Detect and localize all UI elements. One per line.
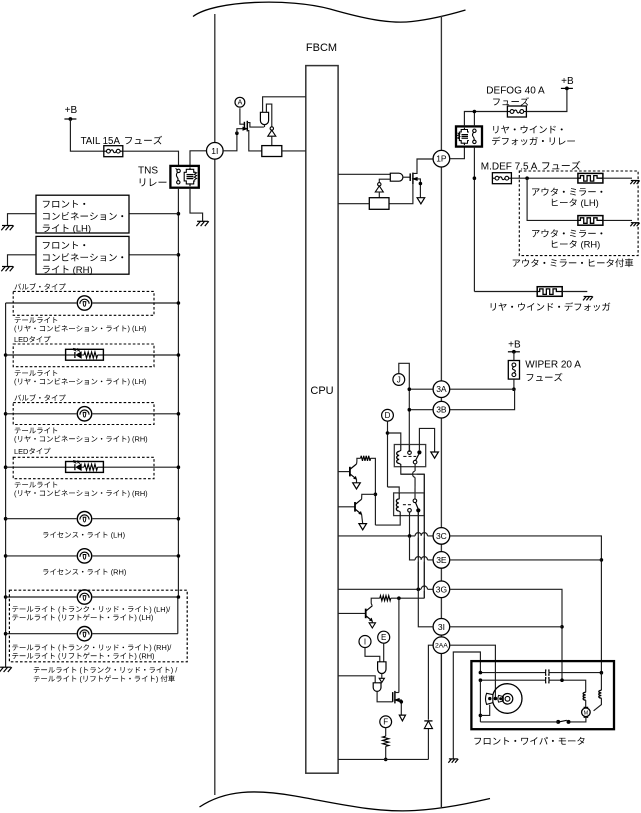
node dot 3C junction xyxy=(408,534,412,538)
label tail RH 1 xyxy=(15,427,58,433)
wire Q2 collector to node xyxy=(362,494,376,499)
wire rail1 to armature coil B xyxy=(600,673,602,691)
diode D2 (zener ref) xyxy=(268,127,276,146)
box dashed LED-type RH xyxy=(13,457,154,478)
node dot MOSFET Q4 source xyxy=(235,131,239,135)
label trailer LH 2 xyxy=(12,613,153,622)
node dot R5 ground xyxy=(384,758,388,762)
svg-text:A: A xyxy=(238,100,243,107)
resistor R2 (defog driver) xyxy=(369,198,389,210)
node dot lamp row right xyxy=(177,353,181,357)
svg-text:2AA: 2AA xyxy=(435,643,448,650)
node 3I xyxy=(433,619,450,636)
svg-text:FBCM: FBCM xyxy=(306,42,337,54)
wire 3C to CPU xyxy=(338,535,433,537)
svg-text:) /: ) / xyxy=(171,666,179,675)
node dot Q3 node xyxy=(397,596,401,600)
node 3B xyxy=(433,401,450,418)
wire 3A to fuse xyxy=(450,388,514,390)
svg-text:) (LH): ) (LH) xyxy=(128,377,147,386)
arrow output (Q2 emitter) xyxy=(359,514,367,529)
wire DEFOG fuse to +B xyxy=(526,88,567,111)
svg-text:CPU: CPU xyxy=(310,385,333,397)
label front combination light RH xyxy=(43,241,123,276)
box dashed LED-type LH xyxy=(13,344,154,367)
svg-text:DEFOG 40 A: DEFOG 40 A xyxy=(486,85,545,96)
relay TNS xyxy=(170,166,198,188)
transistor Q3 xyxy=(366,606,373,621)
transistor Q1 xyxy=(350,464,357,479)
wire R1 to CPU xyxy=(282,150,306,152)
arrow output (K1) xyxy=(431,452,439,458)
wire CPU to U3 gate xyxy=(338,173,390,175)
wire K1 coil to Q3 node xyxy=(401,467,425,599)
gate U4 AND (wiper) xyxy=(378,662,386,674)
ground (wiper motor) xyxy=(448,759,458,763)
power +B (tail feed) xyxy=(64,105,77,121)
svg-text:LED: LED xyxy=(14,447,28,456)
node 3C xyxy=(433,528,450,545)
relay K1 (wiper hi/lo) xyxy=(394,445,425,467)
wire CPU ground rail xyxy=(338,758,428,760)
label license light RH xyxy=(43,568,126,577)
wire TNS coil to ground xyxy=(190,188,203,222)
svg-text:) (RH): ) (RH) xyxy=(128,489,148,498)
arrow output (Q5 source) xyxy=(417,198,425,204)
pin F circle xyxy=(380,716,392,728)
pin A circle xyxy=(235,97,245,107)
wire front combo RH ground xyxy=(8,255,37,267)
fuse WIPER 20A xyxy=(508,352,519,379)
node 2AA xyxy=(433,637,450,654)
label trailer RH 2 xyxy=(12,652,154,661)
resistor R5 xyxy=(383,736,389,746)
label trailer LH 1 xyxy=(12,605,171,614)
wire R5 to ground wire xyxy=(385,746,387,759)
node dot Q2 collector node xyxy=(374,493,378,497)
label mirror heater note xyxy=(513,259,634,268)
label bulb type RH xyxy=(14,394,65,401)
wire K1 wiper to K2 common xyxy=(414,464,416,499)
hop K1 wiper over coil wire xyxy=(413,471,417,477)
svg-text:3I: 3I xyxy=(438,622,445,632)
svg-text:3A: 3A xyxy=(436,384,447,394)
wire overlay K1-coil vertical xyxy=(423,474,425,598)
wire+LED tail RH (LED type) xyxy=(6,461,179,473)
label tail LED LH 2 xyxy=(14,377,146,386)
wire 2AA bus bottom xyxy=(440,654,442,808)
label trailer RH 1 xyxy=(12,643,172,652)
node dot M.DEF junction xyxy=(473,176,477,180)
svg-text:(RH): (RH) xyxy=(581,239,601,250)
svg-text:) (LH): ) (LH) xyxy=(128,324,147,333)
resistor R3 xyxy=(361,456,371,461)
wire 3I to relay node xyxy=(418,589,433,627)
node dot lamp row right xyxy=(177,301,181,305)
fuse M.DEF 7.5A xyxy=(492,173,511,184)
box dashed bulb-type RH xyxy=(13,403,154,425)
heater element outer mirror RH xyxy=(578,216,603,226)
label trailer note 1 xyxy=(34,666,179,675)
svg-text:I: I xyxy=(364,637,366,646)
node dot lamp row right xyxy=(177,517,181,521)
node dot row3 left xyxy=(4,412,8,416)
label mirror heater RH 2 xyxy=(552,239,600,250)
motor armature (front wiper) xyxy=(486,684,522,714)
label tail LH 2 xyxy=(14,324,146,333)
wire rear defogger to ground xyxy=(562,291,587,293)
label trailer note 2 xyxy=(34,674,175,683)
wire motor common left xyxy=(479,680,490,722)
box dashed bulb-type LH xyxy=(13,291,154,315)
wire trailer RH up to bus xyxy=(177,597,179,634)
node dot lamp row right xyxy=(177,595,181,599)
wire M to park switch xyxy=(570,717,586,722)
arrow output (M6 source) xyxy=(399,715,405,721)
transistor Q2 xyxy=(355,499,362,514)
wire +B to TAIL fuse xyxy=(70,119,103,151)
label DEFOG fuse 1 xyxy=(486,85,545,96)
hop 3E over NO wire xyxy=(415,557,421,562)
power +B (wiper) xyxy=(508,339,521,353)
wire+bulb trailer tail LH xyxy=(6,589,179,605)
wire 3E to join xyxy=(450,559,602,561)
wire 3E branch xyxy=(410,536,434,560)
node dot lamp row right xyxy=(177,554,181,558)
node dot row4 left xyxy=(4,465,8,469)
wire 2AA to motor brush xyxy=(450,645,496,698)
svg-text:F: F xyxy=(383,718,388,727)
svg-text:): ) xyxy=(156,674,158,683)
hop 3G over coil wire xyxy=(421,586,427,591)
ground (lamp bus bottom) xyxy=(0,667,12,672)
svg-text:3G: 3G xyxy=(436,584,447,594)
svg-text:+B: +B xyxy=(65,105,78,116)
wire WIPER fuse to 3A xyxy=(513,379,515,389)
diode D4 xyxy=(424,721,432,729)
wire K2 NC down to 3C node xyxy=(409,512,411,536)
node 3G xyxy=(433,581,450,598)
wire J to wiper feed bus xyxy=(399,363,410,452)
heater element rear window defogger xyxy=(537,287,562,297)
wire front combo LH ground xyxy=(8,214,37,226)
transistor Q5 (defog relay MOSFET) xyxy=(389,159,433,204)
wire U3 out to Q5 gate xyxy=(403,176,410,178)
wire overlay K1-coil horizontal xyxy=(401,473,425,475)
wire CPU to U5 xyxy=(338,676,375,683)
node dot rail2 left xyxy=(479,678,483,682)
wire K1 NC to output arrow xyxy=(419,428,434,452)
label bulb type LH xyxy=(14,283,65,290)
label TAIL 15A fuse xyxy=(81,136,162,147)
wire K2 NO down to 3G node xyxy=(417,513,419,590)
svg-text:1I: 1I xyxy=(211,146,218,156)
wire M.DEF fuse to mirror heaters xyxy=(511,177,578,179)
capacitor C2 xyxy=(546,677,549,683)
node dot brush feed xyxy=(494,697,498,701)
node dot rail1 left xyxy=(479,671,483,675)
box dashed outer mirror heaters xyxy=(519,171,638,256)
wire defog switch to M.DEF wire xyxy=(473,147,475,292)
node 3E xyxy=(433,552,450,569)
svg-text:E: E xyxy=(381,633,386,642)
relay rear window defogger xyxy=(456,126,482,146)
wire: left harness bus xyxy=(214,14,216,795)
resistor R1 (tail driver) xyxy=(262,146,282,157)
svg-text:+B: +B xyxy=(508,339,521,350)
pin I circle xyxy=(359,636,371,648)
wire Q3 collector resistor xyxy=(371,598,380,606)
node 1I xyxy=(207,143,224,160)
label defog relay 2 xyxy=(492,137,575,146)
wire 1I to MOSFET source xyxy=(223,133,237,151)
pin D circle xyxy=(382,409,394,421)
wire 3B to fuse xyxy=(450,389,515,410)
label tail LED RH 2 xyxy=(14,489,148,498)
node dot rail1 right xyxy=(600,671,604,675)
pin J circle xyxy=(393,374,405,386)
svg-text:LED: LED xyxy=(14,335,28,344)
svg-text:J: J xyxy=(397,375,401,384)
wire 3B to J bus xyxy=(409,409,433,411)
svg-text:D: D xyxy=(385,411,391,420)
node dot lamp row right xyxy=(177,465,181,469)
node dot 3I-3G join xyxy=(560,625,564,629)
label tail LED RH 1 xyxy=(15,482,58,488)
wire to mirror heater RH xyxy=(527,178,578,220)
label WIPER fuse 2 xyxy=(527,373,563,381)
wire+bulb tail RH (bulb type) xyxy=(6,406,179,422)
svg-text:TNS: TNS xyxy=(138,166,158,177)
relay K2 (wiper on/off) xyxy=(394,493,425,516)
CPU block U1 xyxy=(306,66,338,774)
wire heater LH to ground xyxy=(603,177,632,179)
wire+bulb license RH xyxy=(6,548,179,564)
node dot defog fuse junction xyxy=(473,110,477,114)
label tail RH 2 xyxy=(14,435,148,444)
svg-text:(LH): (LH) xyxy=(73,224,91,235)
wire motor common to ground xyxy=(453,652,480,759)
label defog relay 1 xyxy=(493,125,562,133)
arrow output (Q3 emitter) xyxy=(369,621,375,628)
label rear window defogger xyxy=(491,302,611,311)
wire 2AA branch diode xyxy=(428,645,433,759)
wire K1 common from wiper feed xyxy=(409,445,411,451)
inductor coil B xyxy=(594,690,602,711)
wire K2 coil to Q2 node xyxy=(375,516,400,526)
ground (mirror heater RH) xyxy=(630,223,639,227)
label LED type RH xyxy=(14,447,50,456)
node dot rail2 feed xyxy=(560,678,564,682)
label TNS relay xyxy=(138,166,166,187)
resistor R4 xyxy=(380,596,391,601)
svg-text:3B: 3B xyxy=(436,405,447,415)
wire 3G to motor xyxy=(450,589,562,680)
node 1P xyxy=(433,150,450,167)
node dot mirror heater branch xyxy=(525,176,529,180)
node 1I wire to TNS coil xyxy=(190,151,206,166)
node dot front combo RH xyxy=(177,253,181,257)
wire: right harness bus xyxy=(440,16,442,807)
svg-text:WIPER 20 A: WIPER 20 A xyxy=(525,360,581,371)
node dot lamp row right xyxy=(177,412,181,416)
svg-text:(LH): (LH) xyxy=(581,197,599,208)
svg-text:(RH): (RH) xyxy=(111,568,127,577)
wire: harness tear curve top xyxy=(193,2,466,22)
wire defog switch to rear defogger xyxy=(474,291,537,293)
label DEFOG fuse 2 xyxy=(493,97,529,105)
svg-text:) (RH): ) (RH) xyxy=(128,435,148,444)
wire I to U4 xyxy=(365,648,380,662)
pin E circle xyxy=(378,631,390,643)
label LED type LH xyxy=(14,335,50,344)
hop 3E over coil wire xyxy=(421,557,427,562)
wire R2 to CPU xyxy=(338,203,369,205)
diode D3 (zener ref) xyxy=(375,179,390,198)
wire CPU to Q2 base xyxy=(338,506,355,508)
box dashed trailer tail lights xyxy=(9,590,187,662)
node dot row8 left xyxy=(4,632,8,636)
svg-text:) (RH): ) (RH) xyxy=(134,652,154,661)
wire front combo RH to relay xyxy=(129,254,178,256)
wire park switch to common xyxy=(480,721,558,723)
box front combination light LH xyxy=(36,195,129,233)
wire+bulb trailer tail RH xyxy=(6,626,178,642)
hop 3C over NO wire xyxy=(415,533,421,538)
FBCM module label xyxy=(306,42,337,54)
wire: harness tear curve bottom xyxy=(200,792,491,811)
box front combination light RH xyxy=(36,236,129,274)
transistor M6 (wiper MOSFET) xyxy=(393,691,403,715)
label M.DEF fuse xyxy=(481,161,581,172)
wire Q3 node down to M6 drain xyxy=(398,598,400,692)
label tail LH 1 xyxy=(15,317,58,323)
label mirror heater LH 2 xyxy=(552,197,599,208)
CPU label xyxy=(310,385,333,397)
box front wiper motor xyxy=(471,661,614,729)
wire A to MOSFET gate xyxy=(240,108,245,124)
wire motor rail2 (3G/3I) xyxy=(480,680,585,692)
label WIPER fuse 1 xyxy=(525,360,581,371)
wire E to U4 xyxy=(383,643,385,662)
ground (rear defogger) xyxy=(583,297,593,301)
node dot front combo LH xyxy=(177,212,181,216)
node dot J-3A xyxy=(408,387,412,391)
wire U2 input from CPU xyxy=(263,97,306,113)
wire heater RH to ground xyxy=(603,219,632,221)
wire+bulb tail LH (bulb type) xyxy=(6,295,179,311)
wire left lamp bus xyxy=(5,303,7,667)
svg-text:(RH): (RH) xyxy=(73,265,93,276)
wire R4 to node xyxy=(391,597,425,599)
wire U4 out to U5 xyxy=(379,674,384,683)
wire defog relay tops to fuse xyxy=(464,112,507,127)
ground (TNS relay coil) xyxy=(196,221,208,226)
fuse TAIL 15A xyxy=(104,146,123,157)
label mirror heater LH 1 xyxy=(532,188,602,196)
node dot row5 left xyxy=(4,517,8,521)
switch park (wiper) xyxy=(556,720,570,724)
gate U3 AND (defog) xyxy=(390,173,403,181)
wire U5 out to M6 gate xyxy=(377,691,393,701)
fuse DEFOG 40A xyxy=(507,106,526,117)
wire R3 to node xyxy=(371,458,376,525)
hop 3C over coil wire xyxy=(421,533,427,538)
wire CPU to Q3 base xyxy=(338,612,366,614)
node dot 3G junction xyxy=(417,588,421,592)
wire 3C to wiper motor xyxy=(450,536,602,673)
label tail LED LH 1 xyxy=(15,370,58,376)
gate U5 AND (wiper) xyxy=(373,683,382,692)
svg-text:3C: 3C xyxy=(436,531,447,541)
wire front combo LH to relay xyxy=(129,213,178,215)
ground (front combo LH) xyxy=(1,226,13,231)
wire 1P to defog relay coil xyxy=(450,147,465,159)
svg-text:+B: +B xyxy=(561,76,574,87)
svg-text:1P: 1P xyxy=(436,154,447,164)
node dot wiper feed xyxy=(512,387,516,391)
svg-text:M: M xyxy=(584,711,589,717)
node dot row2 left xyxy=(4,353,8,357)
svg-text:(LH): (LH) xyxy=(111,531,125,540)
label front wiper motor xyxy=(474,737,584,745)
wire U2 input from zener D2 xyxy=(266,104,271,127)
capacitor C1 xyxy=(546,669,549,675)
wire 3I right to motor xyxy=(450,626,562,628)
inductor coil A xyxy=(583,692,586,708)
arrow output (Q1 emitter) xyxy=(353,479,361,489)
wire F to resistor xyxy=(385,728,387,736)
ground (mirror heater LH) xyxy=(630,181,639,185)
wire fuse to TNS relay switch xyxy=(123,151,179,166)
node dot row6 left xyxy=(4,554,8,558)
wire CPU to Q1 base xyxy=(338,471,350,473)
label front combination light LH xyxy=(43,200,123,235)
node dot J-3B xyxy=(408,408,412,412)
gate U2 AND (tail) xyxy=(260,112,268,127)
label mirror heater RH 1 xyxy=(532,229,602,237)
svg-text:) (LH): ) (LH) xyxy=(134,613,153,622)
wire+bulb license LH xyxy=(6,511,179,527)
heater element outer mirror LH xyxy=(578,173,603,183)
wire TNS switch output down left bus xyxy=(177,188,179,597)
ground (front combo RH) xyxy=(1,267,13,272)
node 3A xyxy=(433,381,450,398)
wire motor rail1 (3C/3E) xyxy=(480,672,601,674)
node dot row7 left xyxy=(4,595,8,599)
wire overlay K2-NO vertical xyxy=(417,513,419,590)
svg-text:3E: 3E xyxy=(436,555,447,565)
power +B (defogger) xyxy=(561,76,574,90)
wire Q1 collector resistor xyxy=(357,458,361,464)
node dot 3E-3C join xyxy=(600,558,604,562)
wire D to relay coils xyxy=(386,421,401,493)
wire 3A to J bus xyxy=(409,388,433,390)
wire 3G to CPU xyxy=(338,588,433,590)
label license light LH xyxy=(43,531,125,540)
motor M (wiper) xyxy=(582,707,591,717)
wire+LED tail LH (LED type) xyxy=(6,348,179,360)
transistor Q4 (tail MOSFET) xyxy=(237,121,264,151)
